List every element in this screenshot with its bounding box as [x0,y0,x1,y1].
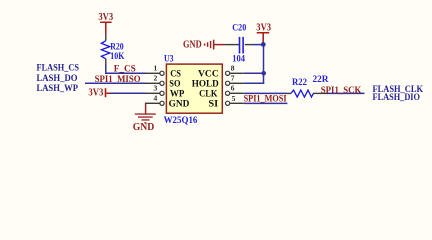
svg-text:U3: U3 [164,54,174,64]
wire R20 to pin1 [105,65,107,74]
svg-text:HOLD: HOLD [192,79,219,89]
pin 5 [226,94,244,106]
svg-text:GND: GND [133,122,155,133]
svg-text:SI: SI [208,99,218,109]
power GND (top, near C20) [183,39,225,50]
power 3V3 (top left) [98,12,113,34]
svg-text:R22: R22 [292,78,307,88]
wire pin 7 to vertical [244,82,264,84]
pin 7 [226,74,244,86]
junction dot at C20/3V3 [261,42,266,47]
wire R22 to SPI1_SCK [327,92,365,94]
ground GND (below chip) [133,103,156,134]
svg-text:SO: SO [169,79,180,89]
svg-text:10K: 10K [110,52,125,62]
power 3V3 (top right) [256,23,271,44]
svg-text:GND: GND [169,99,190,109]
pin 3 [146,84,165,96]
svg-text:LASH_WP: LASH_WP [37,84,79,94]
svg-text:SPI1_SCK: SPI1_SCK [321,86,362,96]
svg-text:6: 6 [231,84,235,93]
svg-text:C20: C20 [232,24,246,34]
svg-text:3: 3 [154,84,158,93]
wire F_CS net [105,72,145,74]
svg-text:7: 7 [231,74,235,83]
wire C20 to 3V3 stem [253,44,264,46]
svg-text:R20: R20 [110,43,124,53]
svg-text:CLK: CLK [199,89,218,99]
pin 6 [226,84,244,96]
svg-text:5: 5 [232,94,236,103]
resistor R22 [286,75,329,97]
chip U3 body [166,64,222,113]
wire SPI1_MISO net [85,82,146,84]
pin 2 [146,74,165,86]
svg-text:3V3: 3V3 [88,88,103,99]
svg-text:104: 104 [232,55,245,65]
svg-text:CS: CS [170,69,181,79]
svg-text:WP: WP [170,89,185,99]
svg-text:W25Q16: W25Q16 [164,116,198,126]
capacitor C20 [225,24,253,65]
svg-text:FLASH_CS: FLASH_CS [37,63,80,73]
svg-text:FLASH_DIO: FLASH_DIO [373,93,421,103]
resistor R20 [101,34,125,66]
pin 4 [146,94,165,106]
svg-text:22R: 22R [313,75,329,85]
pin 8 [226,64,244,76]
power 3V3 (pin 3) [88,88,110,99]
svg-text:VCC: VCC [198,69,219,79]
pin 1 [146,64,165,76]
svg-text:F_CS: F_CS [114,65,136,75]
svg-text:8: 8 [231,64,235,73]
svg-text:GND: GND [183,39,202,50]
svg-text:LASH_DO: LASH_DO [37,74,78,84]
wire pin 5 SPI1_MOSI net [244,102,288,104]
junction dot at pin 8 [261,71,266,76]
wire 3V3 to pin 3 [111,92,146,94]
wire 3V3 vertical down to pin 7 [263,44,265,84]
wire pin 8 to vertical [244,72,264,74]
wire pin 6 to R22 [244,92,286,94]
svg-text:3V3: 3V3 [256,23,271,34]
svg-text:2: 2 [154,74,158,83]
svg-text:1: 1 [154,64,158,73]
svg-text:4: 4 [154,94,158,103]
